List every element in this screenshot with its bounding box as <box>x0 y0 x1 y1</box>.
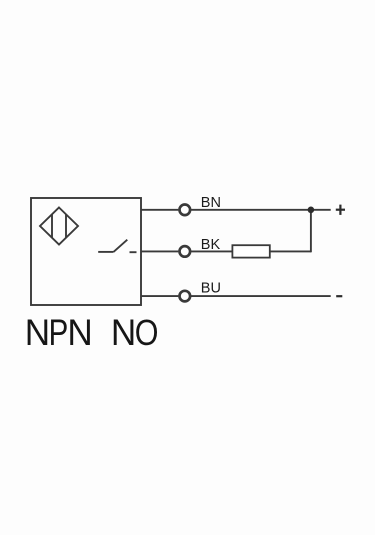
wire BN from box to connector <box>141 209 178 211</box>
svg-text:BU: BU <box>201 281 221 297</box>
switch NO contact dash <box>130 251 137 253</box>
svg-text:N: N <box>67 312 92 353</box>
connector circle BN <box>180 205 191 216</box>
svg-text:N: N <box>111 312 136 353</box>
+ terminal <box>336 205 345 215</box>
wire BN from connector to + terminal <box>190 209 330 211</box>
- terminal <box>336 295 342 297</box>
svg-text:BK: BK <box>201 237 221 253</box>
wire BK from resistor to corner <box>270 250 311 252</box>
svg-text:O: O <box>135 314 159 354</box>
wire BU from box to connector <box>141 295 178 297</box>
connector circle BU <box>180 291 191 302</box>
switch NO contact lever <box>114 240 128 252</box>
resistor (load) <box>232 245 269 257</box>
connector circle BK <box>180 246 191 257</box>
wire BK from box to connector <box>141 250 178 252</box>
sensor body box <box>31 198 141 305</box>
proximity sensor symbol (diamond) <box>40 208 78 245</box>
proximity sensor symbol right inner line <box>65 214 67 238</box>
switch NO contact pole wire <box>98 251 113 253</box>
label NO <box>111 312 159 353</box>
wire BK vertical up to junction <box>310 210 312 253</box>
wire BU from connector to - terminal <box>190 295 330 297</box>
label NPN <box>25 312 93 353</box>
proximity sensor symbol left inner line <box>51 214 53 238</box>
svg-text:P: P <box>49 313 69 354</box>
svg-text:N: N <box>25 312 50 353</box>
wire BK from connector to resistor <box>190 250 232 252</box>
svg-text:BN: BN <box>201 195 221 211</box>
junction node dot <box>308 207 315 214</box>
